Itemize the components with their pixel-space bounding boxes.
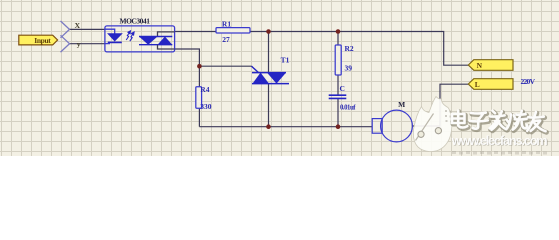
svg-text:M: M <box>398 100 405 109</box>
wire R1 to corner, down, to port N <box>250 32 468 66</box>
junction dot bottom rail at T1 MT1 <box>266 124 271 129</box>
wire capacitor C to bottom rail <box>337 99 339 127</box>
MOC3041 internal triac <box>139 32 175 49</box>
svg-text:N: N <box>477 61 483 70</box>
resistor R2 <box>335 45 341 75</box>
triac T1 <box>252 66 290 83</box>
junction dot at T1 gate / R4 node <box>197 64 202 69</box>
optocoupler U1 MOC3041 box <box>105 26 175 52</box>
wire motor right terminal to corner up to port L <box>413 84 469 126</box>
motor M <box>372 110 412 142</box>
svg-text:39: 39 <box>345 64 353 73</box>
svg-text:T1: T1 <box>281 56 290 65</box>
junction dot on R1 rail at R2 branch <box>336 29 341 34</box>
junction dot on R1 rail at T1 branch <box>266 29 271 34</box>
wire net X from bus entry to MOC3041 pin1 <box>70 28 105 30</box>
port L <box>468 79 513 90</box>
junction dot bottom rail at capacitor <box>336 124 341 129</box>
faint watermark residue along bottom edge <box>452 151 547 155</box>
watermark text 电子发烧友 <box>452 111 547 133</box>
port N <box>468 60 513 71</box>
watermark logo blob <box>413 97 452 152</box>
svg-text:27: 27 <box>222 35 230 44</box>
wire gate junction to T1 gate <box>199 65 251 67</box>
svg-text:R2: R2 <box>345 44 354 53</box>
wire MOC3041 pin4 right, down to gate junction, down to R4 <box>175 49 200 88</box>
wire net y from bus entry to MOC3041 pin2 <box>70 43 105 45</box>
MOC3041 internal LED <box>105 29 122 43</box>
wire junction to T1 MT2 <box>268 32 270 73</box>
svg-text:Input: Input <box>34 36 51 45</box>
wire R4 bottom to bottom rail corner <box>198 109 200 127</box>
bus entry chevrons at port Input <box>61 21 70 52</box>
wire junction down to R2 <box>337 32 339 46</box>
svg-text:0.01uf: 0.01uf <box>340 104 356 111</box>
MOC3041 light arrows <box>126 31 134 41</box>
svg-text:220V: 220V <box>521 77 536 86</box>
svg-text:R4: R4 <box>200 85 209 94</box>
svg-text:y: y <box>77 40 81 49</box>
svg-text:R1: R1 <box>222 19 231 28</box>
svg-text:www.elecfans.com: www.elecfans.com <box>451 133 548 148</box>
svg-text:L: L <box>475 80 480 89</box>
resistor R1 <box>216 28 250 33</box>
svg-text:X: X <box>75 21 81 30</box>
watermark text www.elecfans.com <box>451 133 549 149</box>
wire T1 MT1 down to bottom rail <box>268 84 270 127</box>
svg-text:C: C <box>340 84 345 93</box>
wire bottom rail <box>199 126 372 128</box>
port Input <box>19 35 58 45</box>
svg-text:MOC3041: MOC3041 <box>119 17 150 26</box>
wire MOC3041 pin6 to R1 <box>175 31 216 33</box>
resistor R4 <box>196 87 202 108</box>
capacitor C <box>329 95 347 98</box>
wire R2 bottom to capacitor C <box>337 75 339 95</box>
svg-text:330: 330 <box>200 102 212 111</box>
